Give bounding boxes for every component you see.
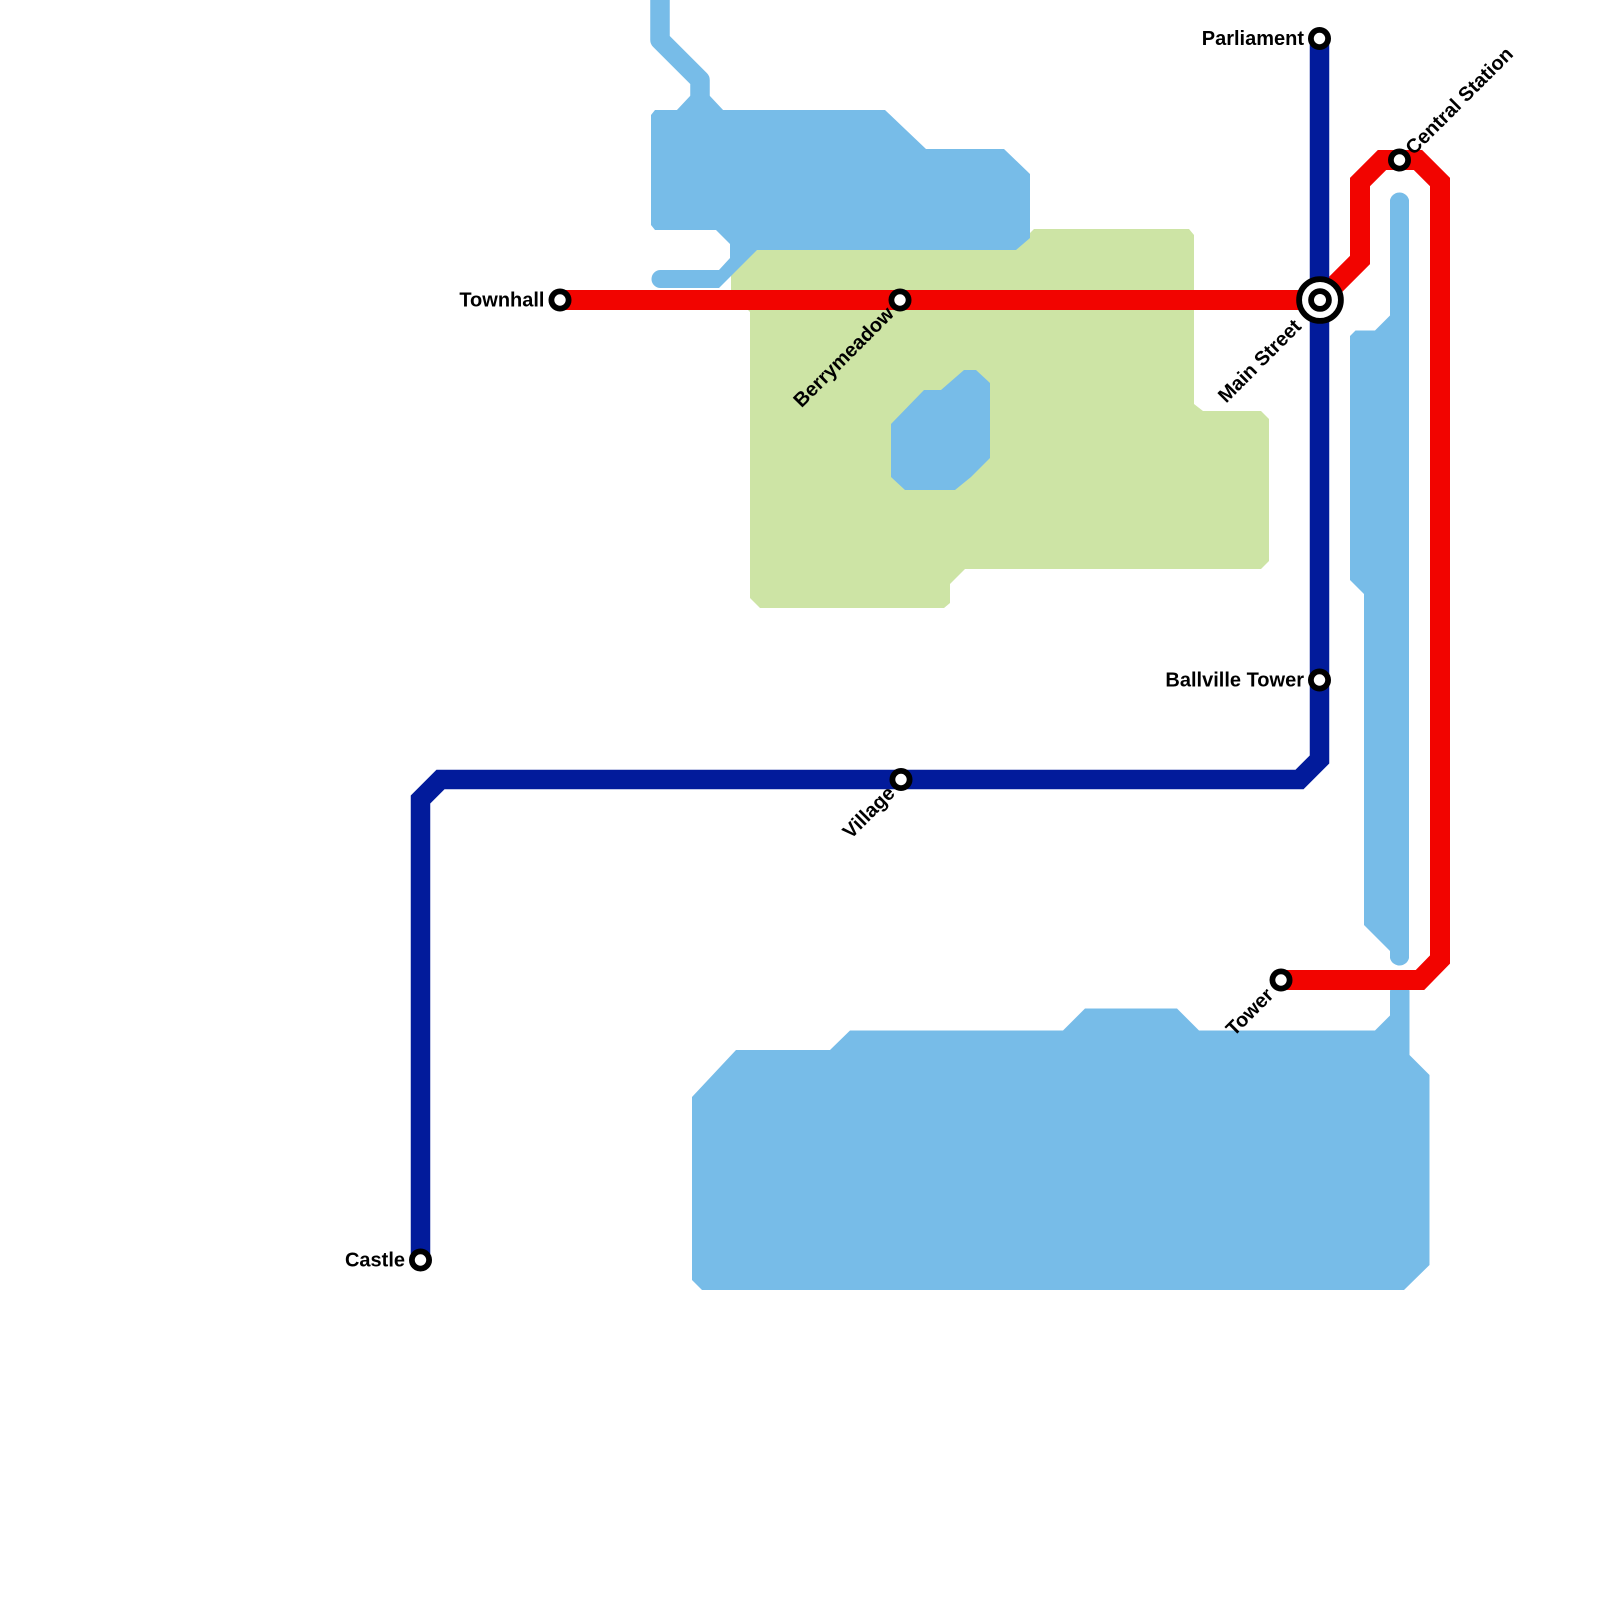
svg-text:Parliament: Parliament (1202, 28, 1305, 50)
station Berrymeadow (891, 291, 908, 308)
bottom lake with river inlet (692, 982, 1430, 1290)
river-lake junction flare (676, 95, 724, 111)
red line Townhall-MainStreet-CentralStation-Tower (560, 160, 1440, 980)
station Central Station (1391, 151, 1408, 168)
svg-text:Ballville Tower: Ballville Tower (1165, 670, 1304, 692)
river from top edge (660, 0, 700, 112)
station Ballville Tower (1311, 671, 1328, 688)
station Parliament (1311, 30, 1328, 47)
navy line Parliament-MainStreet-Village-Castle (421, 39, 1320, 1261)
park Berrymeadow green area (731, 229, 1269, 608)
lake inside park (891, 370, 990, 490)
svg-text:Townhall: Townhall (459, 290, 544, 312)
svg-text:Castle: Castle (345, 1250, 405, 1272)
station Townhall (551, 291, 568, 308)
interchange Main Street (1299, 279, 1341, 321)
station Tower (1272, 971, 1289, 988)
station Village (892, 771, 909, 788)
station Castle (412, 1251, 429, 1268)
east river ribbon and wide channel (1350, 192, 1409, 965)
upper lake with notch and west stub (651, 110, 1030, 288)
